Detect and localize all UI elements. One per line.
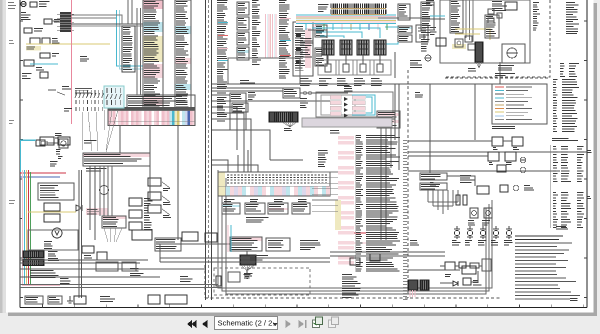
breaker symbol B2 — [467, 226, 473, 239]
label SV2 — [482, 221, 490, 226]
component box right — [182, 232, 198, 241]
comb connector CN4 — [240, 255, 256, 265]
callout arrow — [48, 90, 65, 95]
alternator symbol — [21, 1, 26, 6]
ECM J1 table header rows — [127, 95, 195, 108]
relay solenoid RL1 — [322, 40, 334, 55]
component T4 internals — [418, 28, 426, 39]
module F1 stack c — [129, 222, 142, 230]
module M1 bottom box — [228, 58, 300, 84]
connector table T1 top — [398, 4, 410, 20]
wire bundle colored top — [296, 15, 396, 23]
label F2 — [54, 20, 61, 22]
relay solenoid RL2 — [340, 40, 352, 55]
export all icon disabled — [329, 317, 339, 328]
lamp symbol — [100, 186, 109, 195]
next-document button disabled — [299, 320, 307, 328]
boundary ladder ticks — [403, 141, 408, 300]
network wire 6 — [471, 271, 478, 282]
cyan wire A3 — [30, 63, 58, 65]
wire drop to relay 3 — [323, 24, 325, 30]
component block E — [122, 262, 136, 271]
label under comb H3 — [468, 69, 476, 71]
sub connector table 3 — [268, 203, 288, 214]
labels top right margin — [566, 3, 579, 34]
abbrev list codes — [560, 64, 565, 77]
sub-table label 3 — [274, 200, 284, 202]
sheet frame bottom border — [20, 307, 587, 309]
dash-dot boundary bottom-left vertical — [204, 265, 206, 298]
wire field 6 — [177, 170, 179, 240]
diode D5 — [330, 112, 365, 118]
label KR2 — [513, 148, 519, 150]
relay ring KR5 — [520, 157, 526, 163]
label under H box — [498, 66, 514, 71]
wire gauge col3 — [577, 147, 584, 182]
connector box J3b — [237, 17, 249, 30]
diode block left pins — [303, 91, 312, 95]
wire horizontal right y171 — [408, 170, 560, 172]
label on dashed line — [495, 74, 515, 76]
lamp module L1 — [36, 140, 45, 146]
resistor R4 — [463, 195, 467, 205]
wire drop to relay 9 — [377, 24, 379, 30]
wire drop to relay 5 — [341, 24, 343, 30]
resistor N3 — [470, 263, 479, 268]
wire labels column A — [217, 1, 228, 121]
staircase wire 3 — [212, 113, 244, 172]
component box upper — [132, 230, 152, 240]
bottom margin box D — [165, 295, 187, 304]
bottom bus line left 2 — [20, 287, 222, 289]
label relay area bottom left — [300, 79, 312, 86]
dash-dot boundary bottom — [205, 297, 500, 299]
wire bottom mid link 1 — [330, 251, 445, 253]
module G3 rows — [268, 241, 284, 248]
labels right of H box — [533, 3, 540, 31]
micro colored rows column A — [218, 23, 228, 61]
network box N4 — [482, 259, 491, 271]
component H box top — [505, 2, 517, 10]
wire bottom-left bus 3 — [20, 268, 205, 270]
HVAC module outline — [440, 0, 530, 63]
breaker symbol B4 — [493, 226, 499, 239]
wire drop to relay 8 — [368, 24, 370, 30]
cyan wire T2 — [385, 26, 398, 28]
yellow wire H2 — [455, 33, 480, 35]
stub wires into ECM pin table — [312, 172, 338, 211]
labels center bottom 2 — [300, 241, 321, 250]
zone letters left 3 — [9, 201, 15, 204]
arrow S2 — [162, 196, 170, 202]
wire bottom-left bus 4 — [20, 276, 160, 278]
connector table G2 — [230, 237, 262, 251]
harness trunk center dash — [208, 0, 210, 300]
label KR1 — [493, 148, 498, 150]
label network b — [473, 281, 481, 285]
wire vertical x395 — [394, 52, 396, 78]
cyan rail upper segment — [21, 141, 36, 173]
labels near boundary ladder — [410, 241, 419, 246]
label in dashed box — [244, 274, 253, 279]
component T4 — [416, 25, 428, 42]
wire field 4 — [149, 166, 151, 200]
label above lamp cluster — [55, 134, 62, 138]
wire gauge table border — [549, 145, 551, 228]
labels in lamp cluster — [44, 242, 53, 249]
ECM pin table description column — [366, 136, 400, 272]
network box N1 — [445, 262, 455, 270]
label network a — [445, 275, 451, 277]
connector strip P3 — [102, 216, 126, 228]
connector row T2 — [398, 26, 412, 33]
connector box J3c — [237, 32, 249, 45]
wire long horizontal A — [212, 83, 500, 85]
vertical wires to ECM table 4 — [140, 8, 142, 95]
pink stub to pin table — [350, 242, 366, 244]
labels right mid — [460, 176, 474, 183]
wire legend relays left 2 — [408, 155, 488, 157]
labels midfield b — [415, 93, 423, 98]
label breaker B1 — [452, 241, 461, 245]
bottom margin table A — [25, 296, 43, 304]
wire field 5 — [270, 159, 303, 161]
resistor R3 — [456, 195, 460, 205]
wire down from ECM table 3 — [177, 126, 179, 171]
relay top wire black — [308, 30, 327, 38]
left small text rows 2 — [50, 162, 58, 167]
relay ring KR6 — [520, 167, 526, 173]
motor letter — [55, 231, 59, 235]
module R5 — [477, 186, 489, 194]
wire mid bottom bus 2 — [160, 261, 300, 263]
labels under H4 — [421, 33, 431, 51]
switch SW2 — [42, 38, 50, 44]
module G1 — [205, 233, 217, 242]
feed wire bank 3 — [247, 150, 249, 172]
connector P1b rows — [122, 26, 135, 72]
flasher component — [59, 139, 68, 148]
cyan relay loop 1 — [312, 28, 380, 38]
cyan wire above CN4 — [230, 225, 232, 252]
labels mid cluster — [84, 256, 92, 261]
ground symbol bottom margin — [67, 296, 73, 303]
relay tray 2 — [336, 55, 357, 75]
micro colored rows column C — [280, 19, 291, 56]
diode block connector table — [377, 111, 400, 128]
pink vertical wire — [71, 0, 73, 124]
relay tray 1 — [318, 55, 339, 75]
staircase wire 4 — [212, 119, 251, 172]
component mid cluster a — [82, 246, 94, 253]
sub-table label 1 — [224, 200, 235, 202]
next-page button disabled — [286, 320, 292, 328]
labels left column extra 1 — [62, 17, 70, 19]
label switches — [52, 39, 59, 44]
wire diode block feed — [300, 92, 330, 94]
label relay 2 — [337, 79, 349, 86]
yellow wire H1 — [455, 29, 490, 40]
network wire 5 — [440, 282, 453, 284]
labels left of pink table — [318, 151, 328, 167]
relay small A1 — [24, 28, 32, 33]
vertical wire H a — [465, 0, 467, 38]
harness trunk left rail — [205, 0, 207, 300]
wire drop to relay 6 — [350, 24, 352, 30]
module M1 outline — [293, 22, 313, 76]
label battery feed — [39, 2, 50, 7]
wire horizontal right y152 — [408, 151, 587, 153]
component bottom mid 1 — [350, 258, 360, 265]
wire drop to relay 7 — [359, 24, 361, 30]
export page icon — [313, 317, 323, 328]
connector mini K — [230, 93, 246, 101]
feed wire bank 1 — [212, 160, 228, 172]
relay KR2 — [512, 137, 523, 146]
comb connector CN3 — [23, 259, 44, 266]
HVAC small symbols — [488, 9, 502, 23]
highlight label horn — [86, 208, 108, 215]
label left b — [22, 74, 32, 79]
legend footnote — [492, 127, 515, 129]
relay solenoid RL3 — [357, 40, 369, 55]
wire vertical x95 — [94, 166, 96, 240]
bottom margin box E — [74, 296, 86, 304]
relay A4 — [40, 72, 48, 78]
comb connector CN7 — [408, 280, 418, 290]
wire color code table codes — [553, 80, 557, 132]
wire vertical x100 — [99, 166, 101, 216]
wire vertical x112 — [111, 166, 113, 216]
gray double wire 1 — [71, 23, 143, 25]
harness trunk right rail — [211, 0, 213, 300]
component H5 — [436, 38, 446, 46]
network wire 2 — [455, 265, 459, 267]
wire gauge table header — [552, 139, 578, 141]
wire mid bottom bus 1 — [160, 257, 300, 259]
connector bank pin grid — [227, 175, 327, 183]
wires into HVAC box cyan — [430, 15, 445, 17]
component row mid a — [500, 185, 508, 192]
comb CN4 fan — [241, 265, 255, 271]
sensor box S3 — [148, 205, 161, 213]
wire right mid horizontal — [447, 176, 475, 186]
component mid cluster b — [97, 252, 107, 260]
solenoid SV1 — [470, 208, 478, 218]
wire vertical x104 — [103, 166, 105, 216]
wire legend relays link — [503, 140, 512, 142]
sub connector table 1 — [222, 203, 240, 214]
wire vertical below diode 1 — [380, 128, 382, 240]
connector table J5 — [315, 48, 327, 66]
label SV1 — [468, 221, 475, 226]
sheet frame right border — [586, 0, 588, 308]
wire bottom mid link 2 — [330, 255, 445, 257]
labels right of combs — [48, 252, 59, 264]
labels left diode block — [300, 99, 308, 108]
connector bank stripe border — [218, 185, 330, 187]
dashed sub-box bottom — [214, 268, 310, 295]
wire mid bottom bus 4 — [300, 261, 330, 263]
ECM J1 colored pin stripes — [108, 111, 195, 126]
relay with ring H — [455, 39, 463, 47]
wire drop to relay 1 — [305, 24, 307, 30]
svg-text:Schematic (2 / 2:: Schematic (2 / 2: — [218, 319, 275, 328]
ECM J1 table dark band — [108, 108, 195, 111]
wire vertical below diode 2 — [385, 128, 387, 240]
cyan pair down 1 — [117, 10, 144, 66]
left rails bottom turn — [23, 285, 61, 287]
wire long horizontal D — [212, 90, 283, 92]
label S1 — [163, 189, 170, 191]
module F1 stack a — [129, 198, 142, 206]
small symbols H area — [425, 55, 431, 61]
breaker symbol B1 — [454, 226, 460, 239]
wire cluster down — [246, 251, 248, 255]
labels lower mid — [130, 269, 144, 276]
label relay 4 — [371, 79, 382, 86]
notes paragraph — [515, 236, 580, 299]
zone labels left margin — [8, 3, 16, 9]
switch bank cyan box — [104, 86, 124, 108]
vertical wires to ECM table 3 — [136, 8, 138, 95]
network box N6 — [463, 278, 471, 285]
sender A2 — [40, 53, 50, 58]
wire gauge col1 — [553, 147, 558, 182]
dense pin row upper — [331, 4, 386, 15]
comb connector H3 — [475, 42, 483, 62]
yellow highlighted label — [26, 46, 41, 51]
connector mini L — [283, 88, 300, 98]
sub-table label 4 — [298, 200, 307, 202]
component bottom mid 2 — [370, 254, 380, 261]
sub connector table 2 — [245, 203, 265, 214]
diode N5 — [453, 281, 458, 286]
wire T1 to H4 — [378, 17, 430, 19]
wire field 8 — [245, 101, 247, 130]
connector strip H2 — [485, 15, 499, 38]
sub-table label 2 — [250, 200, 258, 202]
wire right vertical x430 — [429, 84, 431, 173]
wire field 3 — [212, 130, 270, 160]
switch bank symbols — [75, 89, 104, 112]
connector table J2 — [175, 0, 191, 118]
wire legend relays left 1 — [408, 140, 492, 142]
legend box — [492, 84, 547, 124]
labels midfield c — [330, 131, 340, 133]
arrow S3 — [162, 209, 170, 215]
left viewer shadow strip — [0, 0, 6, 313]
wire bottom-left bus 1 — [20, 259, 148, 261]
cyan loop diode block — [366, 97, 372, 113]
labels H top right — [492, 2, 507, 11]
feed wire bank 2 — [237, 155, 239, 172]
yellow wire horn — [28, 211, 76, 213]
connector table J4 — [315, 25, 327, 37]
wire vertical x79 — [78, 170, 80, 298]
connector mini K2 — [232, 103, 248, 112]
comb connector CN2 — [23, 251, 44, 258]
wire gauge col2 — [561, 147, 571, 182]
connector row R1 — [420, 173, 447, 180]
relay block K2 — [38, 183, 74, 200]
module cluster table — [155, 238, 181, 251]
colored rail cyan — [24, 170, 26, 286]
switch bank fan lines — [82, 110, 118, 152]
wire long horizontal C — [212, 87, 300, 89]
comb connector CN8 — [420, 280, 429, 290]
module bottom right — [462, 266, 476, 274]
wire cluster to left — [160, 243, 230, 245]
cyan wire T3 — [385, 42, 398, 44]
bus rect bottom line 2 — [222, 174, 489, 291]
connector strip P2 — [83, 153, 150, 166]
labels lower left — [30, 271, 59, 278]
yellow band right of bank — [335, 200, 341, 230]
wire vertical x108 — [107, 166, 109, 216]
relay KR4 — [505, 152, 516, 161]
connector box J3d — [237, 47, 249, 60]
label KR3 — [489, 163, 493, 165]
label S2 — [163, 203, 171, 205]
vertical wire H c — [472, 0, 474, 42]
label comb CN1 — [284, 129, 292, 131]
network wire 1 — [440, 265, 445, 267]
P3 fan lines — [104, 228, 122, 242]
connector strip H1 — [450, 0, 463, 33]
diode D3 — [330, 101, 365, 107]
motor symbol M — [52, 228, 62, 238]
fuse F2 — [44, 19, 52, 24]
cyan box diode block — [352, 95, 375, 115]
bus rect bottom line 1 — [218, 170, 492, 288]
page number — [570, 299, 578, 301]
component block D — [96, 262, 118, 271]
cyan pair down 2 — [120, 10, 144, 69]
wire labels column B — [252, 1, 261, 65]
fan tree right — [428, 190, 458, 214]
module small A — [40, 137, 54, 145]
zone letters left 2 — [9, 121, 14, 124]
relay tray 3 — [353, 55, 374, 75]
bottom margin box C — [148, 295, 160, 304]
label relay 1 — [319, 79, 332, 86]
cyan relay loop 2 — [316, 32, 362, 38]
ECM J1 table bottom border — [108, 108, 195, 126]
labels left column extra 5 — [84, 141, 96, 143]
red wire left — [20, 172, 66, 174]
connector strip H4 — [421, 2, 434, 30]
wire down from ECM table 1 — [119, 126, 121, 154]
comb CN1 fan — [282, 122, 297, 127]
pink vertical left pair — [22, 170, 24, 286]
ECM table footer rows — [342, 275, 361, 298]
wire gauge marker a — [587, 151, 591, 153]
vertical wires to ECM table 2 — [131, 0, 133, 24]
label diode block title — [344, 87, 353, 91]
labels right of J4 — [318, 5, 328, 12]
red stub to pin table — [350, 232, 366, 234]
bottom margin table B — [48, 296, 62, 304]
comb connector CN1 — [269, 112, 298, 122]
label A3 — [36, 68, 44, 70]
connector row T3 — [398, 35, 412, 42]
wire gauge col2 b — [561, 193, 571, 228]
relay solenoid RL4 — [374, 40, 386, 55]
feed wire bank 4 — [212, 165, 258, 172]
bus rect bottom line 3 — [226, 178, 486, 294]
wire gauge col3 b — [577, 193, 584, 228]
